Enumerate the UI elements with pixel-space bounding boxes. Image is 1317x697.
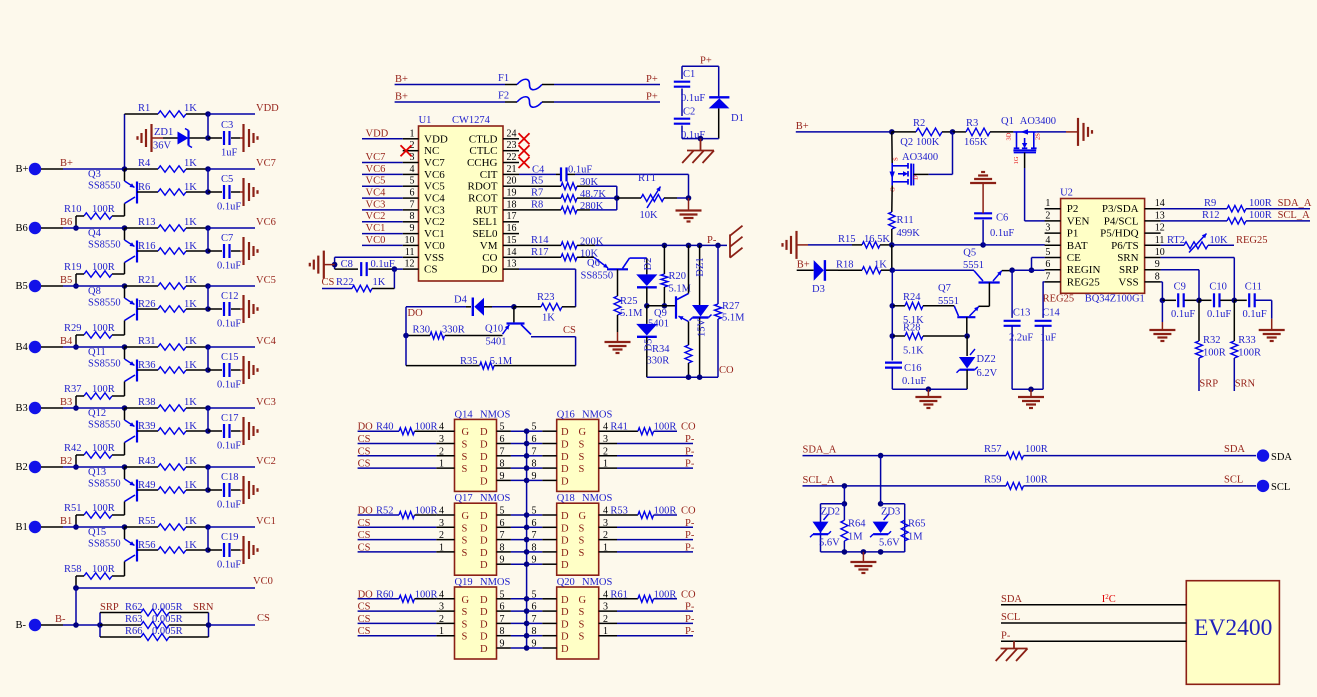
svg-text:8: 8 [410,211,415,222]
U1 pin 24 CTLD [469,128,519,145]
svg-text:1K: 1K [184,516,197,527]
svg-text:1uF: 1uF [221,148,238,159]
svg-text:P-: P- [685,626,695,637]
svg-text:S: S [579,452,585,463]
resistor R20 5.1M [661,245,692,305]
capacitor C11 0.1uF [1234,282,1271,321]
resistor R57 100R [984,444,1256,459]
svg-text:6: 6 [500,518,505,529]
svg-text:Q18: Q18 [557,493,575,504]
svg-text:0.1uF: 0.1uF [1207,309,1231,320]
svg-text:R8: R8 [531,199,543,210]
svg-text:REG25: REG25 [1236,235,1268,246]
svg-text:DZ2: DZ2 [977,354,996,365]
svg-text:3: 3 [439,434,444,445]
capacitor C12 0.1uF [205,291,257,330]
svg-text:P6/TS: P6/TS [1111,240,1139,252]
svg-text:S: S [579,464,585,475]
svg-text:B-: B- [16,620,27,631]
svg-text:16: 16 [507,223,517,234]
mosfet Q2 AO3400 [890,132,939,192]
svg-text:1: 1 [439,459,444,470]
svg-text:R6: R6 [138,182,150,193]
wire R1-ZD1 vertical [207,114,209,138]
svg-text:9: 9 [500,471,505,482]
wire VC7 vertical [207,169,209,192]
svg-text:0.1uF: 0.1uF [1243,309,1267,320]
svg-text:RDOT: RDOT [468,181,498,193]
svg-text:5: 5 [410,176,415,187]
svg-text:0.1uF: 0.1uF [681,93,705,104]
transistor Q15 SS8550 [88,527,137,562]
NMOS drain bus [526,431,528,648]
net B+ right [796,121,895,135]
Q14 pin 4 left [436,422,469,439]
svg-text:1K: 1K [373,277,386,288]
svg-text:3: 3 [439,518,444,529]
svg-text:36V: 36V [153,141,172,152]
svg-text:B+: B+ [60,158,73,169]
Q16 pin 9 left [527,471,569,488]
Q17 pin 8 right [480,542,529,559]
transistor Q7 5551 [938,283,979,336]
terminal B- [16,619,64,631]
svg-text:1K: 1K [184,336,197,347]
svg-text:100R: 100R [1249,210,1272,221]
svg-text:3: 3 [439,602,444,613]
svg-text:S: S [462,464,468,475]
resistor R52 100R [358,506,438,519]
svg-text:S: S [462,440,468,451]
U2 pin 3 P1 [1045,223,1079,240]
Q19 pin 1 left [436,626,467,643]
Q16 pin 8 left [527,459,569,476]
resistor R65 1M [901,519,925,552]
resistor R19 100R [64,262,125,289]
svg-text:R65: R65 [908,519,926,530]
resistor R59 100R [984,474,1256,489]
svg-text:B1: B1 [16,522,28,533]
svg-text:0.1uF: 0.1uF [568,164,592,175]
wire pin12 CS [392,266,403,272]
svg-text:F1: F1 [498,73,509,84]
resistor R22 1K [322,269,395,292]
svg-text:VSS: VSS [1118,276,1138,288]
net SCL_A row [803,475,1007,489]
U1 pin 15 VM [480,235,519,252]
svg-text:R18: R18 [836,260,854,271]
svg-text:VC6: VC6 [256,217,276,228]
U1 pin 8 VC2 [403,211,445,228]
svg-text:4: 4 [439,422,444,433]
chassis ground EV2400 [996,641,1028,661]
svg-text:11: 11 [1155,235,1165,246]
svg-text:1: 1 [439,542,444,553]
svg-text:D: D [561,548,569,559]
Q18 pin 1 right [579,542,618,559]
svg-text:100R: 100R [654,589,677,600]
svg-text:P5/HDQ: P5/HDQ [1100,228,1139,240]
svg-text:280K: 280K [580,201,604,212]
ground at R25 [605,342,631,353]
svg-text:100R: 100R [92,384,115,395]
net I2C label [1102,593,1116,605]
Q20 pin 5 left [527,589,569,606]
svg-text:2: 2 [439,614,444,625]
Q14 pin 2 left [436,446,467,463]
svg-text:R1: R1 [138,103,150,114]
svg-text:CS: CS [358,446,371,457]
zener ZD3 5.6V [870,504,905,552]
svg-text:C13: C13 [1013,307,1031,318]
transistor Q11 SS8550 [88,347,137,382]
capacitor C14 1uF [1035,282,1061,390]
svg-text:F2: F2 [498,91,509,102]
svg-text:5: 5 [532,589,537,600]
svg-text:1: 1 [603,626,608,637]
svg-text:R35: R35 [460,356,478,367]
svg-text:G: G [462,595,470,606]
svg-text:R43: R43 [138,456,156,467]
U2 pin 2 VEN [1045,210,1090,227]
svg-text:D: D [480,548,488,559]
svg-text:D: D [561,607,569,618]
wire DO from pin13 [519,269,576,307]
svg-text:1: 1 [1045,198,1050,209]
diode D1 [709,66,744,138]
svg-text:R38: R38 [138,397,156,408]
svg-text:9: 9 [532,471,537,482]
resistor R35 5.1M [406,307,576,369]
svg-text:D5: D5 [643,339,654,352]
svg-text:1: 1 [439,626,444,637]
svg-text:14: 14 [507,247,517,258]
svg-text:R52: R52 [376,506,394,517]
svg-text:6: 6 [532,518,537,529]
resistor R41 100R [610,422,696,435]
Q18 pin 9 left [527,555,569,572]
diode D4 [406,295,514,316]
svg-text:CO: CO [681,589,696,600]
svg-text:VC7: VC7 [424,157,445,169]
wire P+ bottom rail [682,136,719,142]
Q14 pin 7 right [480,446,529,463]
svg-text:C11: C11 [1245,282,1262,293]
resistor R14 200K [519,235,604,249]
svg-text:R12: R12 [1202,210,1220,221]
svg-text:P-: P- [685,602,695,613]
U2 pin 5 CE [1045,247,1082,264]
svg-text:SS8550: SS8550 [88,479,121,490]
resistor R26 1K [137,299,208,312]
net VC3 [205,397,276,411]
svg-text:AO3400: AO3400 [902,152,938,163]
svg-text:CS: CS [322,277,335,288]
transistor Q3 SS8550 [88,169,137,204]
net P- from Q18 pin 2 [617,530,695,541]
svg-text:D: D [480,619,488,630]
svg-text:1K: 1K [184,182,197,193]
capacitor C6 0.1uF [974,183,1014,245]
svg-text:VC3: VC3 [366,199,386,210]
svg-text:6: 6 [500,602,505,613]
net CS to Q14 pin 2 [358,446,437,457]
ground reg bottom [915,389,941,408]
svg-text:S: S [579,607,585,618]
wire VC4 vertical [207,347,209,370]
resistor R55 1K [125,516,209,530]
svg-text:5.1M: 5.1M [490,356,513,367]
resistor R58 100R [64,562,125,591]
svg-text:VSS: VSS [424,252,444,264]
svg-text:10K: 10K [640,210,659,221]
svg-text:C5: C5 [221,174,233,185]
svg-text:3: 3 [1045,223,1050,234]
svg-text:Q2: Q2 [900,137,913,148]
svg-text:B+: B+ [16,164,29,175]
svg-text:G: G [579,511,587,522]
Q16 pin 1 right [579,459,618,476]
node R2-R3 [950,129,956,135]
wire ZD2 drop [842,486,848,507]
svg-text:DZ1: DZ1 [695,257,706,276]
svg-text:B3: B3 [60,397,72,408]
svg-text:7: 7 [410,199,415,210]
svg-text:P1: P1 [1067,228,1079,240]
svg-text:2: 2 [439,530,444,541]
svg-text:D: D [480,523,488,534]
svg-text:NMOS: NMOS [582,577,613,588]
net B5 wire [60,275,127,289]
svg-text:Q14: Q14 [455,409,474,420]
Q19 pin 5 right [480,589,529,606]
svg-text:P-: P- [685,434,695,445]
resistor R63 0.005R [100,614,209,629]
svg-text:6.2V: 6.2V [977,368,998,379]
U2 pin 13 P4/SCL [1104,210,1165,227]
wire reg bottom rail [892,386,967,392]
svg-text:100R: 100R [92,503,115,514]
net VC7 [205,158,276,172]
svg-text:SDA_A: SDA_A [1278,198,1312,209]
wire VDD feed vertical [124,114,126,169]
svg-text:NC: NC [424,145,439,157]
mosfet array Q18 NMOS body [557,493,613,575]
svg-text:B2: B2 [60,456,72,467]
svg-text:VC6: VC6 [366,164,386,175]
fuse F1 [395,73,660,90]
svg-text:17: 17 [507,211,517,222]
U2 pin 7 REG25 [1045,271,1101,288]
no-connect X pin22 [519,157,530,168]
node Q9 base row [644,303,676,309]
Q20 pin 8 left [527,626,569,643]
resistor R28 5.1K [890,323,970,357]
svg-text:R27: R27 [722,301,740,312]
svg-text:Q15: Q15 [88,527,106,538]
resistor R29 100R [64,321,125,350]
svg-text:SRP: SRP [1199,378,1218,389]
svg-text:SCL: SCL [1271,482,1290,493]
net SCL to EV2400 [1001,612,1186,623]
svg-text:R36: R36 [138,360,156,371]
svg-text:2: 2 [603,530,608,541]
svg-text:13: 13 [1155,210,1165,221]
resistor R53 100R [610,506,696,519]
net VC2 [205,456,276,470]
svg-text:R32: R32 [1203,335,1221,346]
resistor R9 100R [1161,198,1312,212]
svg-text:B-: B- [55,614,66,625]
net CO row [647,365,734,380]
svg-text:R53: R53 [610,506,628,517]
Q17 pin 2 left [436,530,467,547]
svg-text:3: 3 [603,602,608,613]
svg-text:5: 5 [532,506,537,517]
resistor R56 1K [137,540,208,553]
resistor R33 100R [1231,300,1261,391]
svg-text:NMOS: NMOS [480,493,511,504]
zener ZD1 36V [153,127,208,152]
svg-text:7: 7 [500,446,505,457]
svg-text:CS: CS [358,614,371,625]
Q14 pin 8 right [480,459,529,476]
svg-text:D: D [561,464,569,475]
capacitor C10 0.1uF [1199,282,1234,321]
svg-text:4: 4 [603,589,608,600]
fuse F2 [395,91,660,108]
Q17 pin 1 left [436,542,467,559]
U1 pin 17 SEL1 [472,211,519,228]
svg-text:R5: R5 [531,176,543,187]
Q14 pin 6 right [480,434,529,451]
svg-text:9: 9 [500,555,505,566]
svg-text:VC7: VC7 [256,158,276,169]
Q20 pin 4 right [579,589,618,606]
svg-text:0.1uF: 0.1uF [217,319,241,330]
svg-text:100R: 100R [92,204,115,215]
U2 pin 9 SRP [1119,259,1161,276]
svg-text:S: S [462,619,468,630]
svg-text:Q19: Q19 [455,577,473,588]
svg-text:DO: DO [408,308,424,319]
svg-text:C7: C7 [221,233,233,244]
net P- from Q16 pin 1 [617,459,695,470]
svg-text:0.1uF: 0.1uF [217,202,241,213]
Q17 pin 6 right [480,518,529,535]
svg-text:5401: 5401 [486,337,507,348]
svg-text:0.1uF: 0.1uF [217,441,241,452]
svg-text:B+: B+ [395,74,408,85]
svg-text:15V: 15V [697,319,708,338]
svg-text:22: 22 [507,152,517,163]
svg-text:D4: D4 [454,295,468,306]
svg-text:48.7K: 48.7K [580,189,606,200]
svg-text:C6: C6 [996,213,1008,224]
svg-text:16.5K: 16.5K [864,234,890,245]
svg-text:G: G [579,595,587,606]
svg-text:7: 7 [1045,271,1050,282]
Q19 pin 7 right [480,614,529,631]
svg-text:5: 5 [500,589,505,600]
svg-text:1K: 1K [184,217,197,228]
svg-text:ZD3: ZD3 [881,507,900,518]
svg-text:1: 1 [603,542,608,553]
U1 pin 3 VC7 [403,152,446,169]
Q19 pin 6 right [480,602,529,619]
wire Q1 gate [1025,153,1045,221]
svg-text:SCL: SCL [1224,474,1243,485]
net VC1 [205,516,276,530]
Q20 pin 3 right [579,602,618,619]
svg-text:C10: C10 [1209,282,1227,293]
svg-text:SDA_A: SDA_A [803,445,837,456]
svg-text:5.1K: 5.1K [903,346,924,357]
resistor R5 30K [519,176,617,190]
U2 pin 6 REGIN [1045,259,1101,276]
svg-text:30K: 30K [580,177,599,188]
svg-text:VC1: VC1 [424,228,445,240]
svg-text:3: 3 [410,152,415,163]
resistor R27 5.1M [715,245,746,377]
svg-text:R25: R25 [620,296,638,307]
Q17 pin 9 right [480,555,529,572]
svg-text:Q13: Q13 [88,467,106,478]
svg-text:D: D [561,560,569,571]
net VC6 to U1 [362,164,403,175]
resistor R15 16.5K [808,234,892,248]
svg-text:R62: R62 [125,602,143,613]
svg-text:4: 4 [1045,235,1050,246]
svg-text:S: S [462,607,468,618]
svg-text:VC2: VC2 [256,456,276,467]
svg-text:P-: P- [685,614,695,625]
svg-text:VC4: VC4 [366,188,387,199]
svg-text:NMOS: NMOS [582,493,613,504]
svg-text:I2C: I2C [1102,593,1116,605]
svg-text:SCL: SCL [1001,612,1020,623]
ground at Q1 [1078,118,1092,146]
svg-text:1M: 1M [908,532,923,543]
Q20 pin 7 left [527,614,569,631]
svg-text:SCL_A: SCL_A [803,475,836,486]
svg-text:VC5: VC5 [366,176,386,187]
svg-text:7: 7 [532,530,537,541]
U1 pin 5 VC5 [403,176,446,193]
svg-text:5: 5 [532,422,537,433]
svg-text:1uF: 1uF [1040,333,1057,344]
resistor R62 0.005R [100,602,214,616]
Q20 pin 9 left [527,639,569,656]
svg-text:G: G [462,427,470,438]
svg-text:BQ34Z100G1: BQ34Z100G1 [1085,294,1145,305]
svg-text:S: S [462,523,468,534]
svg-text:100R: 100R [415,422,438,433]
svg-text:9: 9 [1155,259,1160,270]
U1 pin 20 RDOT [468,176,519,193]
U1 pin 2 NC [403,140,440,157]
svg-text:1K: 1K [184,241,197,252]
wire R5-R8 join [614,186,620,210]
svg-text:P2: P2 [1067,203,1079,215]
svg-text:CS: CS [563,325,576,336]
Q14 pin 1 left [436,459,467,476]
net VC4 to U1 [362,188,403,199]
ground at VSS [310,251,335,279]
svg-text:S: S [579,440,585,451]
transistor Q12 SS8550 [88,408,137,443]
svg-text:VDD: VDD [366,128,389,139]
